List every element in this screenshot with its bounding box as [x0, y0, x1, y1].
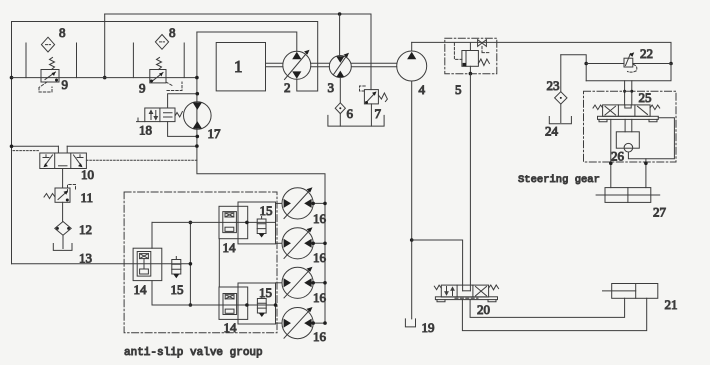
svg-text:16: 16 [313, 329, 327, 344]
valve 5 body [462, 51, 479, 67]
wire valve10 right to pump17 vertical [67, 145, 197, 147]
valve 18 lever [137, 118, 145, 122]
wire valve10 left to main vertical [12, 145, 59, 147]
valve 20 left cell arrows [445, 287, 454, 296]
filter 23 stem [560, 55, 562, 92]
svg-text:13: 13 [79, 251, 92, 266]
tank 24 [549, 117, 571, 124]
relief valve 9a body [41, 70, 59, 83]
wire steering loop bottom [586, 64, 671, 81]
wire tank bottom line [12, 77, 197, 79]
svg-text:1: 1 [234, 57, 243, 76]
svg-text:18: 18 [139, 123, 152, 138]
relief valve 9a drain dashed [39, 82, 52, 92]
anti-slip group dash-dot box [124, 192, 277, 333]
wire motor1 link [276, 202, 282, 204]
relief valve 9b drain dashed [166, 82, 182, 91]
valve 11 spring [44, 194, 55, 199]
wire vertical x152 upper [151, 222, 153, 248]
node valve5 bottom [469, 72, 473, 76]
wire valve11 to filter12 [62, 202, 64, 221]
wire valve20 port A to cyl21 right [462, 298, 646, 330]
wire valve18 top loop [168, 94, 198, 108]
valve 10 middle cell dash [59, 165, 68, 167]
wires valve25 to metering 26 [625, 119, 632, 131]
valve 25 body [603, 105, 651, 116]
valve 5 top port [469, 43, 471, 51]
valve 20 body [441, 285, 488, 297]
svg-text:4: 4 [419, 82, 426, 97]
valve 25 right cell arrow [638, 106, 648, 114]
node junction pump17 vertical tank line [195, 76, 199, 80]
valve 14L inner [137, 252, 151, 277]
svg-text:6: 6 [347, 106, 354, 121]
valve 5 pilot dashed [454, 43, 462, 59]
valve 25 base plate [598, 116, 659, 119]
engine box 1 [216, 43, 265, 91]
pump 2 [283, 51, 311, 79]
svg-text:24: 24 [545, 124, 559, 139]
wire valve18 bottom loop [168, 122, 198, 137]
relief valve 9a spring [50, 58, 55, 70]
valve 20 base plate [435, 297, 497, 300]
valve 20 springs [434, 285, 441, 290]
wire top line 3 pump2 top to pump17 vertical [197, 32, 297, 51]
filter 23 diamond [555, 92, 567, 104]
valve 15U [261, 217, 263, 220]
svg-text:8: 8 [169, 25, 176, 40]
metering unit 26 circle [624, 143, 633, 152]
shaft pump3 to pump4 [351, 63, 396, 67]
svg-text:14: 14 [224, 320, 238, 335]
svg-text:16: 16 [313, 211, 327, 226]
wire upper pair line [152, 221, 276, 223]
tank T1 left wall [25, 43, 27, 78]
wire vertical x152 lower [151, 281, 153, 305]
valve 14D inner [223, 294, 237, 315]
svg-text:5: 5 [455, 82, 462, 97]
relief valve 9b spring [157, 58, 162, 70]
svg-text:anti-slip valve group: anti-slip valve group [124, 347, 263, 359]
valve 11 pilot dashed [68, 185, 76, 193]
wire steering feed L [561, 55, 586, 81]
svg-text:25: 25 [639, 90, 652, 105]
wire branch to valve 20 [412, 240, 463, 291]
node pump4 branch [410, 238, 414, 242]
relief valve 7 pilot dashed [360, 86, 367, 91]
shaft pump2 to pump3 [311, 63, 330, 67]
metering unit 26 box [616, 132, 639, 148]
svg-text:19: 19 [422, 320, 435, 335]
svg-text:23: 23 [547, 78, 560, 93]
valve 25 middle notch [625, 105, 631, 108]
valve 5 bottom port [469, 66, 471, 74]
wire valve10 bottom to valve11 [62, 169, 64, 189]
motor 16 #3 [282, 267, 313, 299]
svg-text:14: 14 [134, 282, 148, 297]
cylinder 27 [605, 188, 651, 203]
filter 8b diamond [155, 35, 168, 50]
pump 17 [184, 102, 212, 130]
valve 25 left cell cross [605, 106, 616, 115]
wire motor3 link [276, 282, 282, 284]
node steering line left [584, 62, 588, 66]
tank T2 left wall [132, 43, 134, 78]
wire lower pair line [152, 304, 276, 306]
motor 16 #1 [282, 187, 313, 219]
wire top line 2 + pump2 bottom loop [12, 22, 318, 264]
valve 10 left cell [43, 155, 49, 158]
wire motor2 link [276, 242, 282, 244]
node steering line right [669, 62, 673, 66]
svg-text:17: 17 [208, 126, 222, 141]
valve 15D [261, 296, 263, 299]
pump 4 [397, 51, 427, 81]
valve 5 spring [478, 59, 489, 66]
filter 6 diamond [335, 103, 345, 114]
wire main pressure line to right [412, 42, 671, 63]
pilot dotted left of valve10 [13, 150, 40, 152]
svg-text:9: 9 [139, 81, 146, 96]
svg-text:10: 10 [81, 167, 94, 182]
throttle valve 22 [624, 58, 633, 67]
node junction tank line x104.7 [103, 76, 107, 80]
relief valve 9b body [150, 70, 166, 83]
cylinder 21 [612, 284, 658, 299]
node junction left vertical tank line [10, 76, 14, 80]
motor 16 #2 [282, 227, 313, 259]
wire top line 1 [105, 13, 371, 15]
wire valve5 down to valve 20 [469, 74, 471, 291]
svg-text:22: 22 [640, 46, 653, 61]
steering gear dash-dot box [584, 91, 677, 162]
node junction top line x339.6 [338, 12, 342, 16]
valve 14L outer box [133, 248, 162, 280]
tank 19 [405, 319, 415, 327]
svg-text:7: 7 [375, 106, 382, 121]
svg-text:20: 20 [477, 302, 490, 317]
svg-text:16: 16 [313, 250, 327, 265]
wire pump4 top to pressure line [411, 42, 413, 51]
svg-text:14: 14 [223, 240, 237, 255]
loop rect lower [238, 283, 276, 324]
svg-text:11: 11 [81, 190, 94, 205]
relief valve 7 body [364, 90, 378, 104]
pump 3 [329, 56, 351, 78]
valve 10 top ports [58, 146, 67, 153]
wire motor4 link [276, 322, 282, 324]
motor 16 #4 [282, 307, 313, 339]
wire taps to valve 25 [625, 81, 632, 105]
valve 5 orifice bowtie [478, 40, 487, 47]
filter 8a diamond [41, 37, 54, 52]
valve 10 right cell [77, 155, 83, 158]
valve 11 body [55, 188, 70, 202]
svg-text:27: 27 [653, 205, 667, 220]
valve 10 body [40, 153, 87, 169]
loop rect upper [238, 202, 276, 244]
wire valve25 left port down to cylinder 27 [610, 119, 612, 187]
wire valve22 line [586, 63, 671, 65]
valve 18 spring right [175, 112, 182, 118]
svg-text:3: 3 [328, 80, 335, 95]
svg-text:12: 12 [79, 222, 92, 237]
wire valve25 right loop [628, 118, 674, 159]
svg-text:15: 15 [171, 282, 184, 297]
valve 18 body [145, 108, 175, 122]
svg-text:16: 16 [313, 290, 327, 305]
wire to cylinder 27 right port [645, 159, 647, 188]
valve 25 springs [593, 105, 603, 110]
svg-text:26: 26 [611, 149, 625, 164]
shaft engine to pump2 [266, 63, 283, 67]
wire filter23 to tank24 [560, 104, 562, 122]
wire to pump3 top [339, 14, 341, 56]
filter 12 diamond [55, 222, 71, 236]
svg-text:Steering gear: Steering gear [518, 174, 600, 186]
wire vertical x190 [189, 222, 191, 305]
tank T2 right wall [183, 43, 185, 78]
valve 5 enclosure dash-dot [445, 38, 497, 74]
wire filter12 to tank [62, 235, 64, 248]
tank under 12 [53, 244, 72, 251]
filter 6 line from pump3 [339, 78, 341, 127]
wire to valve7 top [370, 14, 372, 90]
wire valve20 port B to cyl21 left [470, 298, 624, 317]
svg-text:21: 21 [665, 297, 678, 312]
wire main bottom line 13 [12, 263, 191, 265]
valve 15L [175, 257, 177, 260]
wire 14U-14D connect [218, 239, 220, 287]
tank T1 right wall [76, 43, 78, 78]
tank under 6 and 7 [328, 115, 384, 126]
pilot dotted right of valve10 [86, 159, 196, 161]
motor right stubs and manifold [313, 203, 325, 323]
wire pump4 down to tank 19 [411, 81, 413, 319]
valve 14D outer box [219, 287, 248, 319]
wire pump17 vertical [197, 32, 325, 323]
relief valve 7 spring [378, 93, 387, 102]
svg-text:8: 8 [59, 25, 66, 40]
valve 20 right cell cross [476, 287, 487, 296]
wire valve7 to tank [370, 104, 372, 126]
valve 14U inner [223, 212, 237, 233]
svg-text:9: 9 [62, 77, 69, 92]
valve 14U outer box [219, 206, 248, 238]
svg-text:15: 15 [259, 285, 272, 300]
wire vertical from top line to tank line [104, 14, 106, 78]
svg-text:15: 15 [260, 203, 273, 218]
svg-text:2: 2 [284, 80, 291, 95]
